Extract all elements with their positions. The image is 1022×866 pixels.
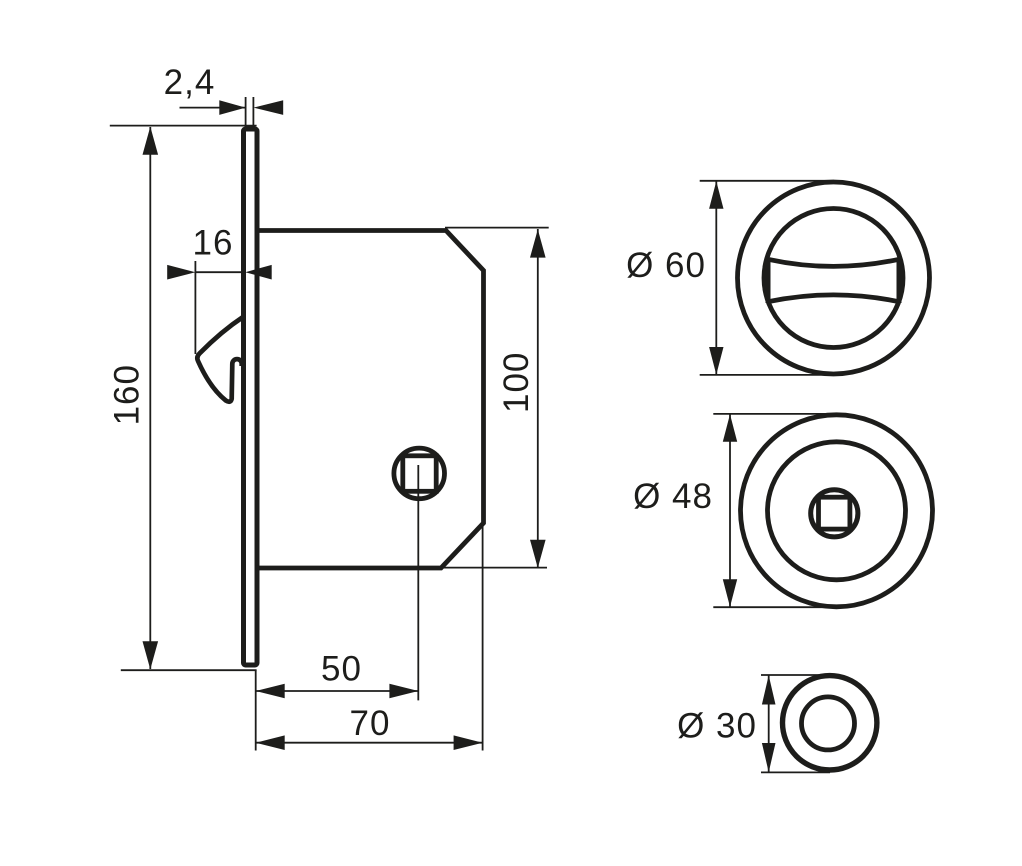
svg-text:Ø 48: Ø 48 [633, 477, 713, 516]
svg-text:70: 70 [350, 704, 391, 743]
dim D30 extension bottom [761, 771, 830, 773]
svg-text:2,4: 2,4 [164, 63, 216, 102]
dim 2,4 leader line [180, 107, 246, 109]
svg-text:Ø 30: Ø 30 [677, 707, 757, 746]
hook bolt [197, 317, 243, 402]
svg-text:160: 160 [108, 364, 147, 425]
spindle square (main view) [403, 456, 436, 492]
dim D48 arrows [723, 414, 737, 442]
dim 16 line [195, 271, 245, 273]
thumbturn inner circle [764, 209, 903, 348]
thumbturn grip right bar [897, 258, 902, 303]
dim 160 extension bottom [121, 669, 257, 671]
dim 100 line [537, 229, 539, 568]
thumbturn grip top edge [768, 259, 899, 266]
dim 100 extension bottom [441, 567, 547, 569]
dim D48 line [729, 415, 731, 607]
dim D30 line [768, 676, 770, 773]
dim 50 arrows [256, 684, 285, 699]
rose spindle circle [811, 490, 858, 537]
dim D48 extension top [713, 413, 837, 415]
dim 70 line [256, 742, 483, 744]
spindle circle (main view) [394, 448, 445, 499]
pull outer circle [783, 676, 877, 770]
dim 50 extension left [255, 670, 257, 750]
rose middle circle [768, 442, 906, 580]
dim 70 arrows [256, 735, 285, 750]
pull inner circle [802, 697, 855, 750]
dim 2,4 extension lines [245, 97, 247, 128]
dim 16 arrows [167, 265, 195, 280]
center line from spindle [417, 465, 419, 700]
dim D60 extension top [700, 180, 834, 182]
dim D60 arrows [709, 181, 723, 209]
dim D60 extension bottom [700, 374, 834, 376]
dim 160 line [149, 127, 151, 669]
thumbturn outer circle [738, 182, 930, 374]
dim D48 extension bottom [713, 606, 837, 608]
svg-text:16: 16 [193, 224, 234, 263]
thumbturn grip bottom edge [768, 295, 899, 302]
dim 2,4 arrows [219, 100, 245, 115]
svg-text:Ø 60: Ø 60 [626, 246, 706, 285]
dim 100 extension top [445, 227, 549, 229]
svg-text:50: 50 [321, 650, 362, 689]
svg-text:100: 100 [497, 352, 536, 413]
dim 100 arrows [530, 229, 546, 257]
dim 50 line [256, 690, 419, 692]
faceplate [244, 129, 258, 665]
lock body outline [256, 231, 484, 569]
rose spindle square [819, 497, 850, 529]
dim D60 line [715, 182, 717, 375]
rose outer circle [741, 415, 933, 607]
dim 16 extension (hook tip) [194, 261, 196, 354]
dim 160 arrows [143, 127, 159, 155]
dim D30 arrows [762, 675, 776, 704]
dim 70 extension right [482, 523, 484, 751]
dim 160 extension top [110, 125, 257, 127]
dim D30 extension top [761, 674, 830, 676]
thumbturn grip left bar [766, 258, 771, 303]
